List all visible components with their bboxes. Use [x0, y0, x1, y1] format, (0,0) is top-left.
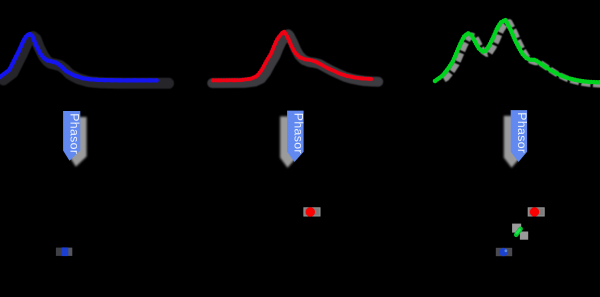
panel 3 blue marker shadow rect: [496, 248, 512, 256]
panel 2 red marker: [306, 207, 315, 216]
green curve bead texture: [435, 20, 600, 83]
panel 3 green mixture marker shadow squares: [512, 224, 528, 240]
blue spectrum curve shadow: [4, 37, 169, 84]
green spectrum curve: [435, 20, 600, 83]
phasor arrow 3: [511, 110, 530, 162]
panel 2 red marker shadow rect: [304, 208, 320, 216]
phasor arrow 1: [63, 111, 81, 161]
panel 3 green mixture marker: [516, 229, 520, 235]
svg-text:Phasor: Phasor: [68, 113, 82, 154]
blue spectrum curve: [0, 34, 157, 81]
phasor arrow 1 shadow: [69, 117, 86, 167]
phasor arrow 2 shadow: [280, 116, 297, 167]
panel 1 blue marker shadow rect: [56, 248, 72, 256]
blue curve bead texture: [0, 34, 157, 81]
red spectrum curve: [213, 32, 372, 81]
panel 3 red marker shadow rect: [528, 208, 544, 216]
green spectrum curve shadow: [444, 22, 600, 85]
phasor arrow 2: [287, 111, 306, 162]
panel 1 blue marker: [62, 247, 69, 256]
red curve bead texture: [213, 32, 372, 81]
panel 3 red marker: [530, 207, 539, 216]
panel 3 blue marker: [499, 248, 508, 257]
svg-text:Phasor: Phasor: [515, 112, 529, 153]
phasor arrow 3 shadow: [504, 116, 520, 168]
svg-text:Phasor: Phasor: [292, 113, 306, 154]
red spectrum curve shadow: [212, 34, 378, 83]
